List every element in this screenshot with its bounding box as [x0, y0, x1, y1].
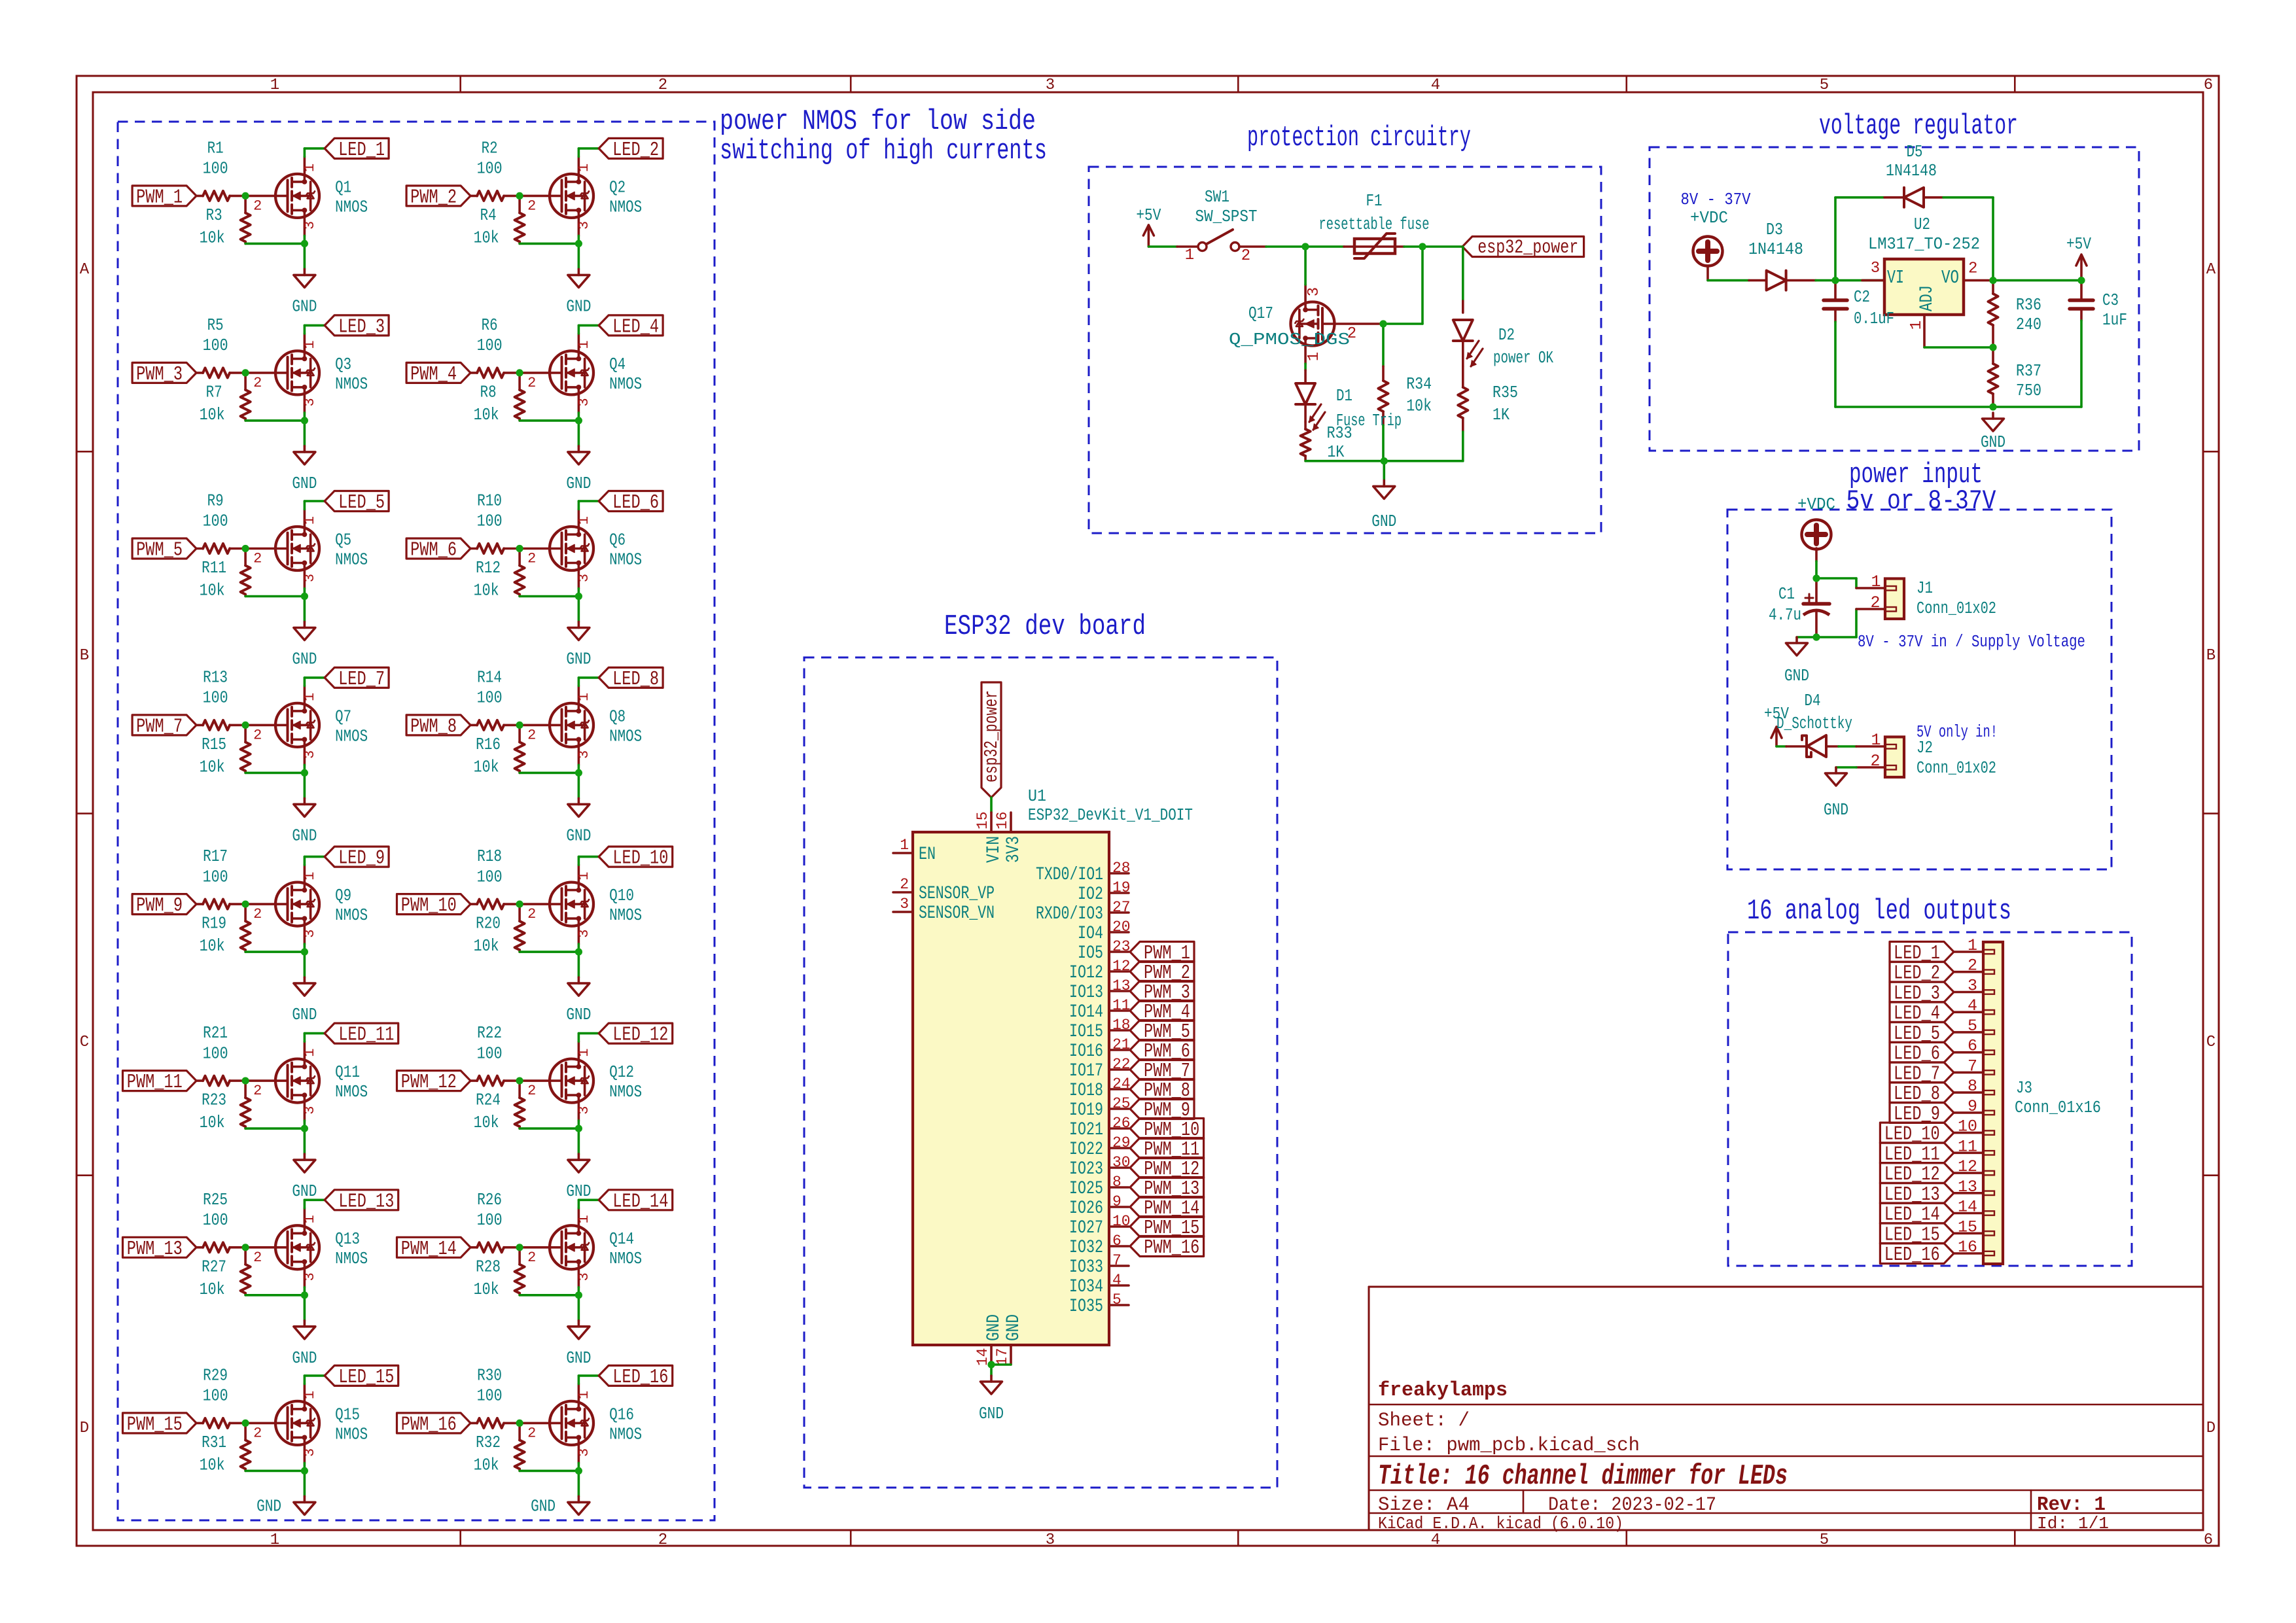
global label LED_4 output [1890, 1002, 1954, 1022]
svg-text:GND: GND [292, 1349, 317, 1368]
svg-text:ESP32 dev board: ESP32 dev board [944, 610, 1146, 643]
global label LED_11 output [1880, 1143, 1954, 1163]
svg-text:16 analog led outputs: 16 analog led outputs [1747, 895, 2011, 928]
capacitor C3 [2080, 281, 2083, 300]
global label PWM_13 [123, 1237, 197, 1257]
svg-text:D1: D1 [1336, 387, 1352, 406]
svg-text:LED_9: LED_9 [338, 847, 385, 870]
svg-text:2: 2 [658, 77, 667, 94]
svg-text:Size: A4: Size: A4 [1378, 1494, 1470, 1516]
svg-text:2: 2 [527, 375, 536, 391]
pin U1 IO25 [1109, 1186, 1129, 1189]
svg-text:1: 1 [576, 693, 592, 701]
junction dots overlay [242, 192, 249, 200]
ground [304, 446, 306, 452]
svg-text:RXD0/IO3: RXD0/IO3 [1036, 904, 1103, 924]
svg-text:NMOS: NMOS [609, 375, 642, 394]
svg-text:IO18: IO18 [1069, 1081, 1103, 1101]
svg-text:9: 9 [1112, 1193, 1122, 1210]
svg-text:IO22: IO22 [1069, 1140, 1103, 1160]
global label PWM_12 [1130, 1158, 1204, 1178]
resistor R3 [244, 196, 247, 213]
pin U1 IO21 [1109, 1127, 1129, 1130]
svg-text:IO25: IO25 [1069, 1179, 1103, 1199]
svg-text:2: 2 [527, 727, 536, 743]
svg-text:1: 1 [302, 164, 318, 172]
svg-text:10k: 10k [474, 1456, 499, 1475]
svg-text:+VDC: +VDC [1797, 495, 1835, 514]
wire source to ground [578, 589, 580, 622]
ground [578, 622, 580, 628]
svg-text:Q11: Q11 [335, 1063, 360, 1082]
svg-text:1: 1 [1305, 352, 1323, 361]
svg-text:GND: GND [566, 1005, 591, 1024]
pin U1 IO18 [1109, 1088, 1129, 1091]
svg-text:2: 2 [253, 727, 262, 743]
svg-text:3: 3 [302, 929, 318, 937]
capacitor C1 [1815, 578, 1818, 604]
global label PWM_9 [132, 894, 196, 915]
svg-text:voltage regulator: voltage regulator [1819, 110, 2018, 143]
svg-text:R23: R23 [202, 1091, 226, 1110]
svg-text:SW_SPST: SW_SPST [1195, 207, 1258, 226]
svg-text:12: 12 [1112, 958, 1131, 975]
svg-text:2: 2 [253, 1249, 262, 1266]
wire fuse to label [1404, 245, 1462, 248]
svg-text:File: pwm_pcb.kicad_sch: File: pwm_pcb.kicad_sch [1378, 1435, 1640, 1457]
svg-text:IO16: IO16 [1069, 1041, 1103, 1062]
svg-text:NMOS: NMOS [335, 1083, 368, 1102]
svg-text:22: 22 [1112, 1056, 1131, 1073]
svg-text:3: 3 [1968, 977, 1977, 996]
svg-text:1: 1 [576, 340, 592, 349]
pin U1 IO16 [1109, 1049, 1129, 1051]
svg-text:+VDC: +VDC [1690, 209, 1728, 228]
resistor R16 [518, 725, 521, 742]
wire drain to label [304, 1034, 306, 1042]
pin J3 1 [1954, 951, 1983, 953]
svg-text:PWM_12: PWM_12 [401, 1071, 457, 1094]
svg-text:100: 100 [477, 867, 503, 886]
svg-text:R26: R26 [477, 1191, 502, 1210]
svg-text:LED_16: LED_16 [1884, 1244, 1940, 1266]
svg-text:2: 2 [900, 876, 909, 893]
pin U1 IO15 [1109, 1029, 1129, 1032]
svg-text:R29: R29 [203, 1367, 228, 1386]
wire drain to label [578, 1034, 580, 1042]
svg-text:R34: R34 [1406, 375, 1432, 394]
svg-text:VO: VO [1941, 267, 1959, 288]
wire pulldown to source [245, 1470, 304, 1473]
svg-text:1: 1 [576, 1391, 592, 1399]
resistor R8 [518, 373, 521, 390]
svg-text:VI: VI [1887, 267, 1904, 288]
svg-text:A: A [2206, 261, 2216, 279]
wire pulldown to source [520, 1127, 578, 1130]
svg-text:TXD0/IO1: TXD0/IO1 [1036, 865, 1103, 885]
global label LED_3 [325, 315, 389, 336]
global label LED_6 output [1890, 1042, 1954, 1062]
svg-text:1: 1 [900, 837, 909, 854]
global label LED_16 [599, 1365, 673, 1386]
wire R35 to ground rail [1462, 432, 1464, 461]
svg-text:2: 2 [527, 198, 536, 214]
svg-text:10: 10 [1112, 1213, 1131, 1230]
connector J1 [1856, 587, 1885, 589]
svg-text:IO33: IO33 [1069, 1257, 1103, 1278]
global label LED_8 output [1890, 1083, 1954, 1103]
wire to J1 pin 1 [1816, 577, 1856, 580]
pin U1 IO17 [1109, 1068, 1129, 1071]
pin U1 TXD0/IO1 [1109, 872, 1129, 875]
wire pulldown to source [245, 419, 304, 422]
svg-text:GND: GND [256, 1497, 281, 1516]
section box power input [1727, 510, 2111, 869]
wire pulldown to source [520, 951, 578, 953]
global label PWM_7 [1130, 1060, 1194, 1080]
svg-text:1: 1 [302, 1215, 318, 1223]
svg-text:4: 4 [1431, 77, 1440, 94]
wire pulldown to source [520, 595, 578, 598]
pin J3 2 [1954, 971, 1983, 973]
wire GND pins join [991, 1363, 1011, 1366]
svg-text:Q17: Q17 [1248, 304, 1273, 323]
svg-text:100: 100 [477, 336, 503, 355]
svg-text:1: 1 [302, 693, 318, 701]
pin U1 IO5 [1109, 951, 1129, 953]
pin U1 EN [893, 852, 913, 854]
wire pulldown to source [245, 1127, 304, 1130]
pin U1 RXD0/IO3 [1109, 911, 1129, 914]
svg-text:16: 16 [994, 811, 1011, 829]
wire esp32_power to VIN [990, 797, 993, 812]
svg-text:GND: GND [566, 297, 591, 316]
pin U1 SENSOR_VN [893, 911, 913, 913]
transistor Q1 [245, 195, 287, 198]
svg-text:18: 18 [1112, 1017, 1131, 1034]
svg-text:protection circuitry: protection circuitry [1247, 122, 1471, 154]
resistor R6 [470, 372, 477, 374]
svg-text:R21: R21 [203, 1024, 228, 1043]
global label PWM_11 [123, 1071, 197, 1091]
svg-text:PWM_11: PWM_11 [127, 1071, 183, 1094]
ground [304, 798, 306, 804]
wire ground stub [1383, 461, 1386, 481]
svg-text:GND: GND [292, 826, 317, 845]
wire drain to label [304, 501, 306, 510]
global label PWM_8 [406, 715, 470, 735]
svg-text:NMOS: NMOS [609, 727, 642, 746]
global label LED_8 [599, 667, 663, 688]
svg-text:Conn_01x16: Conn_01x16 [2015, 1098, 2101, 1117]
svg-text:power OK: power OK [1493, 349, 1554, 368]
pin U1 GND 17 [1010, 1345, 1012, 1365]
wire pulldown to source [520, 419, 578, 422]
svg-text:6: 6 [2204, 77, 2213, 94]
transistor Q15 [245, 1422, 287, 1425]
wire drain to label [304, 1200, 306, 1208]
svg-text:R4: R4 [480, 206, 497, 225]
svg-text:2: 2 [253, 906, 262, 922]
svg-text:10k: 10k [474, 406, 499, 425]
wire VO to +5V output [1993, 279, 2081, 282]
resistor R36 [1992, 281, 1994, 294]
pin U1 SENSOR_VP [893, 891, 913, 894]
svg-text:R12: R12 [476, 559, 501, 578]
diode D1 [1304, 364, 1307, 370]
svg-text:LED_4: LED_4 [612, 315, 659, 338]
pin U1 IO33 [1109, 1265, 1129, 1267]
svg-text:GND: GND [566, 650, 591, 669]
ground [578, 1496, 580, 1502]
svg-text:Rev: 1: Rev: 1 [2037, 1493, 2106, 1516]
svg-text:IO35: IO35 [1069, 1297, 1103, 1317]
svg-text:GND: GND [566, 1349, 591, 1368]
svg-text:3: 3 [302, 1272, 318, 1281]
capacitor C2 [1834, 281, 1837, 300]
resistor R2 [470, 195, 477, 198]
wire source to ground [304, 944, 306, 977]
global label LED_15 [325, 1365, 398, 1386]
svg-text:4: 4 [1112, 1272, 1122, 1289]
wire drain to label [578, 148, 580, 157]
regulator U2 [1884, 259, 1964, 315]
resistor R31 [244, 1423, 247, 1440]
svg-text:SENSOR_VP: SENSOR_VP [919, 884, 995, 904]
svg-text:GND: GND [979, 1405, 1004, 1423]
svg-text:PWM_4: PWM_4 [410, 363, 457, 386]
svg-text:GND: GND [531, 1497, 556, 1516]
global label PWM_6 [1130, 1040, 1194, 1060]
wire drain to label [304, 1376, 306, 1384]
svg-text:16: 16 [1958, 1238, 1977, 1257]
ground [578, 1154, 580, 1160]
ground [578, 798, 580, 804]
wire source to ground [578, 1287, 580, 1321]
svg-text:10k: 10k [200, 937, 225, 956]
svg-text:Q10: Q10 [609, 886, 634, 905]
svg-text:100: 100 [203, 160, 228, 179]
svg-text:3: 3 [576, 929, 592, 937]
global label PWM_3 [132, 362, 196, 383]
global label LED_1 [325, 138, 389, 158]
wire source to ground [578, 413, 580, 446]
fuse F1 [1344, 245, 1404, 248]
svg-text:1: 1 [302, 1391, 318, 1399]
svg-text:27: 27 [1112, 899, 1131, 916]
svg-text:C2: C2 [1854, 288, 1870, 307]
svg-text:D3: D3 [1766, 220, 1783, 239]
pin J3 7 [1954, 1072, 1983, 1074]
resistor R29 [196, 1422, 203, 1425]
svg-text:IO14: IO14 [1069, 1002, 1103, 1022]
svg-text:Q12: Q12 [609, 1063, 634, 1082]
svg-text:NMOS: NMOS [609, 551, 642, 570]
svg-text:100: 100 [203, 1211, 228, 1230]
pin U1 IO32 [1109, 1245, 1129, 1248]
svg-text:1: 1 [576, 1048, 592, 1056]
svg-text:10k: 10k [1406, 397, 1432, 416]
wire to ground [990, 1365, 993, 1376]
svg-text:PWM_8: PWM_8 [410, 715, 457, 738]
svg-text:17: 17 [994, 1348, 1011, 1366]
wire source to ground [304, 1121, 306, 1154]
svg-text:1: 1 [302, 1048, 318, 1056]
global label LED_13 [325, 1190, 398, 1210]
global label PWM_16 [1130, 1236, 1204, 1257]
svg-text:J3: J3 [2016, 1079, 2032, 1098]
svg-text:IO32: IO32 [1069, 1238, 1103, 1258]
transistor Q16 [520, 1422, 561, 1425]
svg-text:D_Schottky: D_Schottky [1776, 714, 1852, 733]
svg-text:Q4: Q4 [609, 355, 626, 374]
svg-text:R32: R32 [476, 1433, 501, 1452]
svg-text:Date: 2023-02-17: Date: 2023-02-17 [1548, 1494, 1716, 1516]
pin U1 IO2 [1109, 892, 1129, 894]
svg-text:EN: EN [919, 845, 936, 865]
svg-text:1N4148: 1N4148 [1748, 240, 1803, 259]
wire C3 to ground rail [2080, 321, 2083, 407]
frame row ticks [77, 451, 93, 453]
svg-text:C3: C3 [2102, 291, 2119, 310]
svg-text:4: 4 [1431, 1531, 1440, 1549]
transistor Q17 [1291, 302, 1335, 346]
svg-text:VIN: VIN [984, 836, 1004, 863]
wire pulldown to source [245, 772, 304, 775]
wire +VDC to D3 [1708, 279, 1749, 282]
svg-text:LED_10: LED_10 [612, 847, 668, 870]
svg-text:100: 100 [203, 512, 228, 531]
svg-text:2: 2 [527, 906, 536, 922]
svg-text:R11: R11 [202, 559, 226, 578]
wire D5 to VO node [1943, 196, 1993, 199]
svg-text:100: 100 [477, 1387, 503, 1406]
svg-text:Q1: Q1 [335, 178, 351, 197]
pin U1 IO12 [1109, 970, 1129, 973]
pin J3 8 [1954, 1091, 1983, 1094]
svg-text:PWM_14: PWM_14 [401, 1238, 457, 1261]
svg-text:1K: 1K [1327, 443, 1345, 462]
svg-text:100: 100 [477, 689, 503, 708]
section box voltage regulator [1650, 147, 2139, 451]
pin U1 IO26 [1109, 1206, 1129, 1208]
svg-text:R14: R14 [477, 669, 502, 688]
svg-text:GND: GND [566, 826, 591, 845]
pin U1 IO14 [1109, 1009, 1129, 1012]
svg-text:Q16: Q16 [609, 1405, 634, 1424]
section box protection circuitry [1089, 167, 1601, 533]
svg-text:19: 19 [1112, 879, 1131, 896]
svg-text:6: 6 [1968, 1037, 1977, 1056]
svg-text:1: 1 [576, 1215, 592, 1223]
svg-text:R30: R30 [477, 1367, 502, 1386]
pin J3 3 [1954, 991, 1983, 994]
pin J3 14 [1954, 1212, 1983, 1215]
svg-text:PWM_2: PWM_2 [410, 186, 457, 209]
svg-text:GND: GND [566, 1182, 591, 1201]
svg-text:J1: J1 [1916, 579, 1933, 598]
svg-text:R28: R28 [476, 1257, 501, 1276]
svg-text:1: 1 [1968, 936, 1977, 955]
svg-text:D5: D5 [1907, 143, 1923, 162]
diode D4 [1776, 745, 1786, 748]
svg-text:Q6: Q6 [609, 531, 626, 550]
global label PWM_7 [132, 715, 196, 735]
resistor R14 [470, 724, 477, 727]
svg-text:R9: R9 [207, 492, 224, 511]
svg-text:240: 240 [2016, 315, 2041, 334]
svg-text:R6: R6 [482, 316, 498, 335]
svg-text:1: 1 [270, 1531, 279, 1549]
global label LED_3 output [1890, 982, 1954, 1002]
svg-text:8: 8 [1112, 1174, 1122, 1191]
global label LED_4 [599, 315, 663, 336]
global label LED_13 output [1880, 1183, 1954, 1203]
frame column ticks [459, 76, 461, 92]
svg-text:PWM_16: PWM_16 [1144, 1236, 1199, 1259]
pin U1 GND 14 [990, 1345, 993, 1365]
svg-text:2: 2 [658, 1531, 667, 1549]
svg-text:100: 100 [477, 1211, 503, 1230]
svg-text:10k: 10k [474, 1113, 499, 1132]
resistor R4 [518, 196, 521, 213]
svg-text:GND: GND [292, 297, 317, 316]
svg-text:3: 3 [576, 1106, 592, 1114]
svg-text:7: 7 [1968, 1056, 1977, 1075]
diode D2 [1462, 301, 1464, 313]
svg-text:Q_PMOS_DGS: Q_PMOS_DGS [1229, 330, 1350, 349]
svg-text:1: 1 [576, 164, 592, 172]
svg-text:10k: 10k [200, 582, 225, 601]
wire to D2 [1462, 247, 1464, 301]
svg-text:NMOS: NMOS [335, 727, 368, 746]
svg-text:R13: R13 [203, 669, 228, 688]
global label PWM_10 [1130, 1119, 1204, 1139]
svg-text:R35: R35 [1492, 383, 1518, 402]
global label LED_6 [599, 491, 663, 512]
svg-text:2: 2 [253, 551, 262, 567]
wire pulldown to source [520, 1294, 578, 1297]
svg-text:2: 2 [1870, 752, 1880, 771]
wire source to ground [304, 765, 306, 798]
svg-text:D2: D2 [1498, 326, 1515, 345]
resistor R30 [470, 1422, 477, 1425]
svg-text:0.1uF: 0.1uF [1854, 309, 1894, 328]
svg-text:F1: F1 [1366, 192, 1383, 211]
svg-text:100: 100 [203, 689, 228, 708]
ground [1383, 480, 1386, 486]
ground [990, 1376, 993, 1382]
wire regulator ground rail [1835, 406, 2081, 408]
svg-text:LM317_TO-252: LM317_TO-252 [1868, 235, 1980, 254]
ground [1992, 413, 1994, 419]
svg-text:100: 100 [203, 1044, 228, 1063]
global label LED_12 output [1880, 1163, 1954, 1183]
svg-text:NMOS: NMOS [335, 375, 368, 394]
svg-text:U2: U2 [1914, 215, 1930, 234]
global label LED_2 [599, 138, 663, 158]
svg-text:GND: GND [1371, 512, 1396, 531]
global label LED_1 output [1890, 942, 1954, 962]
connector J3 [1983, 942, 2003, 1264]
resistor R9 [196, 548, 203, 550]
svg-text:5V only in!: 5V only in! [1916, 723, 1998, 742]
svg-text:C: C [80, 1034, 89, 1051]
wire drain to label [578, 857, 580, 865]
svg-text:8V - 37V: 8V - 37V [1681, 190, 1752, 209]
wire SW1 to fuse [1266, 245, 1344, 248]
wire source to ground [304, 413, 306, 446]
